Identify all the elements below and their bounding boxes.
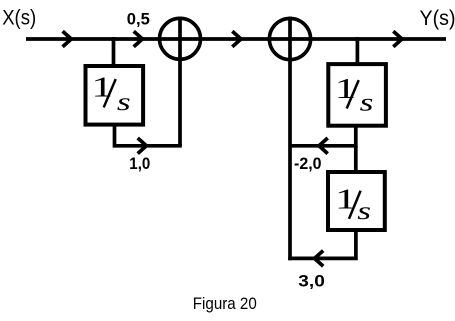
summing junction S1 xyxy=(160,17,201,147)
svg-text:3,0: 3,0 xyxy=(298,272,325,291)
arrow A3 into summer S2 xyxy=(232,31,241,47)
svg-text:-2,0: -2,0 xyxy=(294,154,322,173)
label 1,0 xyxy=(129,154,150,173)
svg-text:1: 1 xyxy=(91,71,113,102)
svg-text:s: s xyxy=(117,88,131,116)
arrow A5 on 1,0 feedback wire xyxy=(138,138,147,154)
wire: U3 feedback to S2 riser (gain 3,0 path) xyxy=(288,230,356,258)
arrow A7 on 3,0 feedback wire xyxy=(315,251,324,267)
wire: U2 feedback to S2 riser (gain -2,0 path) xyxy=(290,124,356,146)
svg-text:X(s): X(s) xyxy=(2,6,36,29)
arrow A4 on output wire xyxy=(393,31,402,47)
svg-text:0,5: 0,5 xyxy=(127,9,150,28)
summing junction S2 xyxy=(269,17,310,261)
svg-text:s: s xyxy=(357,197,371,225)
svg-text:Y(s): Y(s) xyxy=(420,7,455,30)
integrator U3 (1/s) xyxy=(328,172,385,230)
label Y(s) output xyxy=(420,7,455,30)
svg-text:Figura 20: Figura 20 xyxy=(193,295,257,313)
label 3,0 xyxy=(298,272,325,291)
wire: U1 feedback to S1 (gain 1,0 path) xyxy=(115,124,182,146)
label -2,0 xyxy=(294,154,322,173)
svg-text:s: s xyxy=(360,88,374,116)
arrow A6 on -2,0 feedback wire xyxy=(319,138,328,154)
integrator U1 (1/s) xyxy=(86,66,144,125)
caption Figura 20 xyxy=(193,295,257,313)
wire: branch from main line to integrator U1 xyxy=(112,37,116,66)
svg-text:1,0: 1,0 xyxy=(129,154,150,173)
wire: link from -2,0 junction down to integrator U3 xyxy=(354,146,358,174)
label X(s) input xyxy=(2,6,36,29)
arrow A1 on input wire xyxy=(63,31,72,47)
arrow A2 into summer S1 xyxy=(134,31,143,47)
integrator U2 (1/s) xyxy=(328,64,386,126)
label 0,5 xyxy=(127,9,150,28)
wire: main signal line xyxy=(26,37,446,41)
svg-text:1: 1 xyxy=(335,72,357,103)
wire: branch from main line to integrator U2 xyxy=(356,37,360,64)
